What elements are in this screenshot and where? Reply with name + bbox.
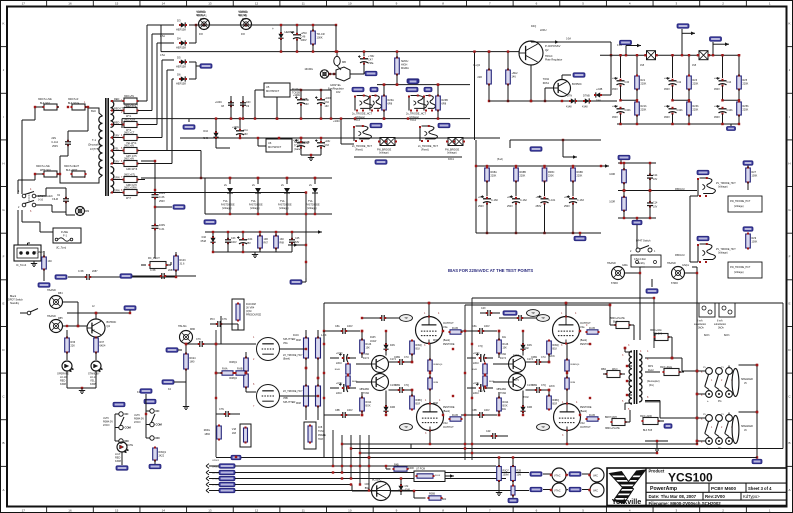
- net label: [697, 170, 709, 174]
- resistor R103: [174, 256, 179, 270]
- svg-text:220K: 220K: [577, 175, 583, 178]
- resistor R0M5: [428, 360, 432, 371]
- wire: [189, 78, 196, 80]
- svg-text:D16: D16: [202, 236, 207, 239]
- svg-text:R0M5Q0: R0M5Q0: [434, 364, 444, 366]
- wire: [280, 348, 306, 350]
- svg-text:100R: 100R: [408, 467, 414, 470]
- svg-text:8kOh: 8kOh: [704, 335, 710, 337]
- filter capacitor C40: [620, 55, 622, 78]
- net label: [569, 487, 581, 491]
- bus wire: [206, 488, 209, 493]
- svg-text:V4d: V4d: [443, 422, 448, 425]
- triode pair row2 V3: [420, 126, 437, 141]
- svg-text:100N: 100N: [159, 224, 165, 227]
- svg-text:+25U: +25U: [612, 105, 618, 108]
- svg-text:16: 16: [68, 2, 72, 6]
- wire: [162, 59, 174, 61]
- svg-text:BLK 3/16: BLK 3/16: [40, 102, 51, 105]
- bridge FW_BRIDGE_HCT2: [448, 138, 456, 146]
- resistor R2B: [511, 467, 516, 481]
- capacitor C-61: [154, 199, 156, 224]
- svg-text:B: B: [2, 441, 4, 445]
- wire: [172, 78, 174, 80]
- svg-text:10M: 10M: [517, 474, 522, 477]
- IC U6 MC7915CT: [266, 139, 292, 152]
- capacitor C-160: [483, 198, 491, 200]
- svg-text:D6: D6: [177, 73, 181, 77]
- resistor R0M5: [565, 360, 569, 371]
- T1 secondary tap RED: [111, 124, 124, 126]
- svg-text:HER158: HER158: [176, 65, 186, 69]
- svg-text:BC550C: BC550C: [107, 320, 117, 324]
- title block: [607, 468, 787, 506]
- fuse F1: [53, 228, 81, 243]
- capacitor C4X: [487, 310, 489, 316]
- resistor R09Q: [547, 341, 552, 354]
- svg-text:+80U: +80U: [507, 196, 513, 199]
- fuse primary 360CT+LIVE: [44, 104, 57, 110]
- diode D6: [181, 76, 185, 81]
- heater resistor: [436, 96, 441, 110]
- svg-text:OUTPUT: OUTPUT: [580, 425, 591, 429]
- wire: [204, 178, 206, 214]
- svg-text:450V: 450V: [612, 88, 618, 91]
- svg-text:100V: 100V: [231, 241, 237, 244]
- svg-text:K398: K398: [60, 383, 66, 386]
- terminal MB WELD: [607, 371, 620, 378]
- bus wire top: [600, 54, 740, 56]
- svg-text:360C+5V-CT: 360C+5V-CT: [124, 104, 138, 107]
- resistor R08Q1: [244, 358, 249, 371]
- svg-text:Product: Product: [649, 469, 665, 474]
- svg-text:R84: R84: [58, 292, 63, 295]
- svg-text:450V: 450V: [612, 116, 618, 119]
- svg-text:C43: C43: [231, 237, 236, 240]
- svg-text:+C7U: +C7U: [336, 382, 342, 385]
- svg-text:YEL 5V8: YEL 5V8: [653, 334, 663, 336]
- svg-text:2X_TRIODE_HC7: 2X_TRIODE_HC7: [283, 390, 303, 393]
- svg-text:C08N: C08N: [394, 356, 400, 359]
- box FW_TRIODE lower: [728, 262, 762, 278]
- svg-text:D4M: D4M: [527, 406, 532, 409]
- bus wire: [206, 482, 209, 487]
- wire: [215, 330, 217, 457]
- capacitor C64: [317, 99, 325, 101]
- wire jack right J5: [739, 364, 758, 366]
- wire: [471, 298, 473, 460]
- svg-text:BLU: BLU: [613, 321, 618, 324]
- svg-text:10N: 10N: [246, 101, 251, 104]
- svg-text:16V: 16V: [325, 105, 330, 108]
- svg-text:Rev:2V00: Rev:2V00: [705, 494, 725, 499]
- svg-text:+10U: +10U: [325, 140, 331, 143]
- svg-text:100M: 100M: [503, 474, 509, 477]
- wire tap to heater bus: [167, 150, 201, 152]
- svg-text:(Decoupler): (Decoupler): [647, 380, 660, 383]
- svg-text:100V: 100V: [484, 325, 490, 328]
- vac source V7AC1: [552, 468, 566, 482]
- wire jack feeds J6: [697, 417, 706, 419]
- capacitor Cc: [381, 315, 383, 321]
- svg-text:TO92: TO92: [543, 78, 550, 81]
- svg-text:+25U: +25U: [612, 77, 618, 80]
- T1 secondary tap GRN: [111, 179, 124, 181]
- svg-text:BLK 5V8: BLK 5V8: [643, 430, 653, 432]
- wire left col: [220, 316, 222, 344]
- svg-text:C42: C42: [677, 81, 682, 84]
- svg-text:P-ChPOSSV: P-ChPOSSV: [545, 44, 561, 48]
- wire top feedback: [324, 302, 783, 304]
- power transformer T1 core: [105, 98, 107, 196]
- svg-text:T-1: T-1: [92, 138, 96, 142]
- wire: [146, 25, 148, 101]
- svg-text:BC550C: BC550C: [572, 82, 582, 86]
- svg-text:R67: R67: [264, 242, 269, 245]
- wire mid: [621, 99, 638, 101]
- net label: [200, 64, 212, 68]
- svg-text:C8A: C8A: [472, 325, 477, 328]
- resistor DU/14U: [506, 70, 511, 84]
- resistor R0Q7: [497, 467, 502, 481]
- gnd label: [231, 455, 241, 459]
- TF1 secondary: [639, 354, 642, 402]
- net label: [503, 311, 517, 315]
- svg-text:+10U: +10U: [293, 139, 299, 142]
- svg-text:R040: R040: [472, 369, 478, 371]
- svg-text:NC: NC: [156, 409, 160, 413]
- diode DN1: [383, 345, 388, 349]
- svg-text:R0M: R0M: [433, 340, 438, 342]
- wire: [530, 65, 532, 101]
- resistor D+Q2 22R: [487, 70, 492, 84]
- wire: [288, 244, 306, 246]
- filter capacitor C40b: [617, 108, 625, 110]
- svg-text:1N5: 1N5: [640, 65, 645, 67]
- wire: [625, 402, 632, 404]
- resistor R68: [274, 236, 279, 248]
- screen resistor R-CBb: [450, 417, 461, 421]
- wire: [141, 160, 155, 162]
- svg-text:0.5A 2-Slot: 0.5A 2-Slot: [634, 258, 646, 261]
- wire: [45, 174, 103, 183]
- svg-text:17: 17: [22, 508, 26, 512]
- wire: [216, 457, 369, 459]
- net label: [743, 161, 753, 165]
- svg-text:TO14: TO14: [410, 119, 417, 122]
- wire secondary top: [645, 357, 672, 359]
- wire mid: [618, 190, 660, 192]
- svg-text:E: E: [2, 301, 4, 305]
- resistor SMCU HIGH: [395, 58, 400, 74]
- svg-text:12: 12: [255, 2, 259, 6]
- svg-text:12: 12: [255, 508, 259, 512]
- resistor R040a: [346, 364, 350, 374]
- capacitor Cc: [518, 315, 520, 321]
- wire: [161, 60, 163, 138]
- svg-text:220N: 220N: [549, 386, 555, 388]
- bus wire: [206, 470, 209, 475]
- svg-text:R-CB: R-CB: [452, 414, 458, 417]
- svg-text:100R: 100R: [609, 200, 615, 203]
- wire top: [618, 162, 656, 164]
- svg-text:100K: 100K: [752, 175, 758, 178]
- resistor: [746, 234, 751, 248]
- svg-text:B: B: [788, 441, 790, 445]
- svg-text:PowerAmp: PowerAmp: [650, 486, 677, 492]
- test point TP5: [400, 424, 413, 431]
- net label GND: [508, 498, 518, 502]
- svg-text:C08N: C08N: [531, 384, 537, 387]
- svg-text:C-163: C-163: [577, 199, 584, 202]
- svg-text:C-162: C-162: [520, 199, 527, 202]
- wire: [566, 431, 568, 445]
- svg-text:(Voltage): (Voltage): [734, 205, 744, 208]
- svg-text:C-61: C-61: [159, 228, 165, 231]
- filter capacitor C44b: [719, 108, 727, 110]
- T1 secondary tap YEL: [111, 150, 124, 152]
- net label: [438, 123, 450, 127]
- svg-text:SPLITTER: SPLITTER: [283, 337, 296, 341]
- svg-text:10K: 10K: [503, 347, 508, 350]
- svg-text:FIX: FIX: [242, 18, 246, 21]
- svg-text:FUSE: FUSE: [61, 230, 68, 234]
- svg-text:15: 15: [115, 508, 119, 512]
- svg-text:FIX: FIX: [241, 32, 245, 36]
- T1 secondary winding lower: [111, 167, 114, 193]
- resistor RC_RECT: [150, 262, 166, 269]
- wire: [518, 51, 519, 53]
- svg-text:TO92: TO92: [363, 392, 370, 395]
- svg-text:B1R: B1R: [553, 403, 558, 406]
- svg-text:(Voltage): (Voltage): [718, 186, 728, 189]
- transistor Q BC550C bottom: [372, 482, 391, 501]
- svg-text:2XCO: 2XCO: [103, 424, 110, 427]
- box FW_TRIODE upper: [728, 196, 762, 212]
- svg-text:15: 15: [115, 2, 119, 6]
- svg-text:BLK: BLK: [91, 109, 96, 113]
- svg-text:FILM: FILM: [52, 198, 58, 201]
- svg-text:C7U: C7U: [478, 391, 483, 393]
- svg-text:22DU: 22DU: [540, 29, 547, 32]
- svg-text:R3M: R3M: [434, 382, 439, 384]
- svg-text:F: F: [3, 255, 5, 259]
- diode D3: [181, 22, 185, 27]
- svg-text:250V: 250V: [507, 205, 513, 208]
- svg-text:100K: 100K: [752, 241, 758, 244]
- wire: [696, 273, 698, 444]
- standoff H5 AND: [199, 19, 210, 30]
- net label: [530, 147, 542, 151]
- wire mid: [723, 99, 740, 101]
- X2 film capacitor: [63, 198, 69, 200]
- wire: [157, 42, 174, 44]
- svg-text:YEL: YEL: [114, 147, 119, 150]
- svg-text:10: 10: [348, 2, 352, 6]
- wire: [68, 130, 88, 132]
- svg-text:C7N: C7N: [222, 318, 227, 321]
- svg-text:C40b: C40b: [625, 109, 632, 112]
- capacitor C-162: [512, 198, 520, 200]
- capacitor C47: [363, 52, 365, 56]
- wire: [625, 351, 632, 353]
- capacitor C76: [199, 341, 201, 347]
- svg-text:MUTE: MUTE: [126, 444, 133, 447]
- svg-text:0518: 0518: [201, 240, 207, 243]
- svg-text:R-CB: R-CB: [452, 327, 458, 330]
- net label: [530, 472, 542, 476]
- capacitor: [647, 174, 653, 176]
- diode DN2: [520, 407, 525, 411]
- wire: [36, 204, 52, 206]
- capacitor C11: [236, 130, 244, 132]
- resistor heater: [622, 197, 627, 210]
- wire: [653, 298, 655, 348]
- svg-text:0.5A: 0.5A: [566, 38, 571, 41]
- net label: [113, 402, 125, 406]
- capacitor C63: [317, 142, 325, 144]
- svg-text:220K: 220K: [491, 175, 497, 178]
- svg-text:RED: RED: [114, 98, 119, 101]
- wire: [340, 119, 342, 144]
- svg-text:KdTypo>: KdTypo>: [743, 494, 760, 499]
- svg-text:HER868: HER868: [285, 30, 295, 34]
- splitter tube V5A: [257, 338, 269, 361]
- net label: [370, 123, 382, 127]
- svg-text:TP: TP: [541, 316, 545, 320]
- svg-text:B1R: B1R: [416, 403, 421, 406]
- svg-text:6R8: 6R8: [442, 103, 447, 106]
- svg-text:GRN: GRN: [114, 189, 120, 192]
- wire: [77, 302, 79, 326]
- svg-text:(Decoupler): (Decoupler): [88, 144, 101, 147]
- svg-text:4X2: 4X2: [336, 91, 341, 94]
- svg-text:BLK+WHT: BLK+WHT: [66, 169, 78, 172]
- test point TP3: [400, 315, 413, 322]
- svg-text:+2UB: +2UB: [596, 88, 603, 91]
- wire: [356, 363, 372, 365]
- wire: [147, 24, 174, 26]
- net label gnd: [574, 236, 586, 240]
- svg-text:C76: C76: [196, 338, 201, 341]
- T1 secondary tap GRN: [111, 192, 124, 194]
- svg-text:HSAND: HSAND: [238, 10, 247, 14]
- svg-text:(Bank): (Bank): [580, 410, 587, 413]
- wire: [166, 70, 168, 151]
- svg-text:R-CB: R-CB: [589, 327, 595, 330]
- capacitor C84b: [342, 412, 344, 418]
- test point TP5: [537, 424, 550, 431]
- svg-text:C14: C14: [653, 201, 658, 204]
- LED L0-P: [117, 442, 127, 452]
- svg-text:OP5K4: OP5K4: [212, 485, 220, 487]
- svg-text:TP: TP: [404, 316, 408, 320]
- svg-text:220K: 220K: [743, 109, 749, 112]
- svg-text:3kOh: 3kOh: [698, 327, 704, 330]
- svg-text:R0M5Q0: R0M5Q0: [571, 364, 581, 366]
- net label: [697, 236, 709, 240]
- svg-text:220K: 220K: [693, 83, 699, 86]
- svg-text:+25U: +25U: [664, 77, 670, 80]
- bus wire y52: [161, 51, 518, 53]
- resistor R2B2: [511, 486, 515, 495]
- net label: [352, 87, 364, 91]
- vac source VAC2: [590, 483, 604, 497]
- svg-text:220U: 220U: [473, 362, 479, 365]
- capacitor C-66: [154, 160, 156, 193]
- resistor ladder col1: [304, 338, 309, 358]
- svg-text:3K22: 3K22: [159, 455, 165, 458]
- svg-text:31.6: 31.6: [180, 263, 185, 266]
- wire: [36, 195, 46, 197]
- wire: [565, 303, 567, 317]
- resistor R08A: [485, 168, 490, 181]
- capacitor C62: [297, 142, 305, 144]
- svg-text:(IC_Tcm): (IC_Tcm): [56, 247, 66, 250]
- wire feed down: [305, 214, 307, 278]
- svg-text:360C+8V: 360C+8V: [124, 157, 134, 160]
- capacitor C7U2: [480, 384, 482, 392]
- substitution box 1: [699, 303, 715, 317]
- wire to Q base: [351, 485, 353, 492]
- resistor R146: [497, 340, 502, 353]
- svg-text:360C+8V: 360C+8V: [124, 144, 134, 147]
- svg-text:TO92: TO92: [523, 348, 529, 350]
- svg-text:C42b: C42b: [677, 109, 684, 112]
- wire: [216, 343, 256, 345]
- wire: [67, 312, 130, 314]
- filter capacitor C44: [722, 55, 724, 78]
- svg-text:C4Z: C4Z: [486, 430, 491, 433]
- jack HSAND right2: [672, 267, 685, 280]
- output tube V4d: [554, 404, 581, 431]
- svg-text:C45: C45: [295, 237, 300, 240]
- svg-text:TR-CR: TR-CR: [317, 32, 325, 36]
- svg-text:BGK: BGK: [366, 405, 371, 408]
- svg-text:GRN WY6: GRN WY6: [126, 168, 138, 171]
- gnd: [730, 124, 732, 126]
- svg-text:SPLITTER: SPLITTER: [283, 400, 296, 404]
- svg-text:13: 13: [208, 2, 212, 6]
- svg-text:BIAS FOR 220mVDC AT THE TEST P: BIAS FOR 220mVDC AT THE TEST POINTS: [448, 268, 533, 273]
- svg-text:+25U: +25U: [714, 77, 720, 80]
- net label: [370, 87, 378, 91]
- svg-text:250V: 250V: [564, 205, 570, 208]
- svg-text:17: 17: [22, 2, 26, 6]
- resistor R08B: [514, 168, 519, 181]
- svg-text:E: E: [788, 301, 790, 305]
- svg-text:PK3: PK3: [210, 318, 215, 321]
- svg-text:R06B: R06B: [429, 493, 435, 496]
- svg-text:OP5K3: OP5K3: [212, 479, 220, 481]
- svg-text:220U: 220U: [336, 392, 342, 395]
- svg-text:D1Y4: D1Y4: [363, 357, 370, 360]
- svg-text:+C7Q: +C7Q: [336, 352, 342, 355]
- svg-text:OUTPUT: OUTPUT: [443, 425, 454, 429]
- svg-text:C-58: C-58: [150, 269, 156, 272]
- speaker jack J5: [706, 368, 713, 375]
- preamp box V4B: [240, 424, 251, 447]
- svg-text:6DS1: 6DS1: [543, 82, 550, 85]
- bus wire bottom: [617, 123, 739, 125]
- svg-text:360CT+LIVE: 360CT+LIVE: [36, 165, 50, 168]
- resistor R040b: [483, 376, 487, 386]
- svg-text:MM: MM: [85, 210, 89, 213]
- svg-text:VAC: VAC: [593, 475, 598, 478]
- svg-text:FW_TRIODE_HCT: FW_TRIODE_HCT: [730, 266, 751, 269]
- wire: [411, 443, 430, 445]
- svg-text:Standby: Standby: [10, 302, 20, 305]
